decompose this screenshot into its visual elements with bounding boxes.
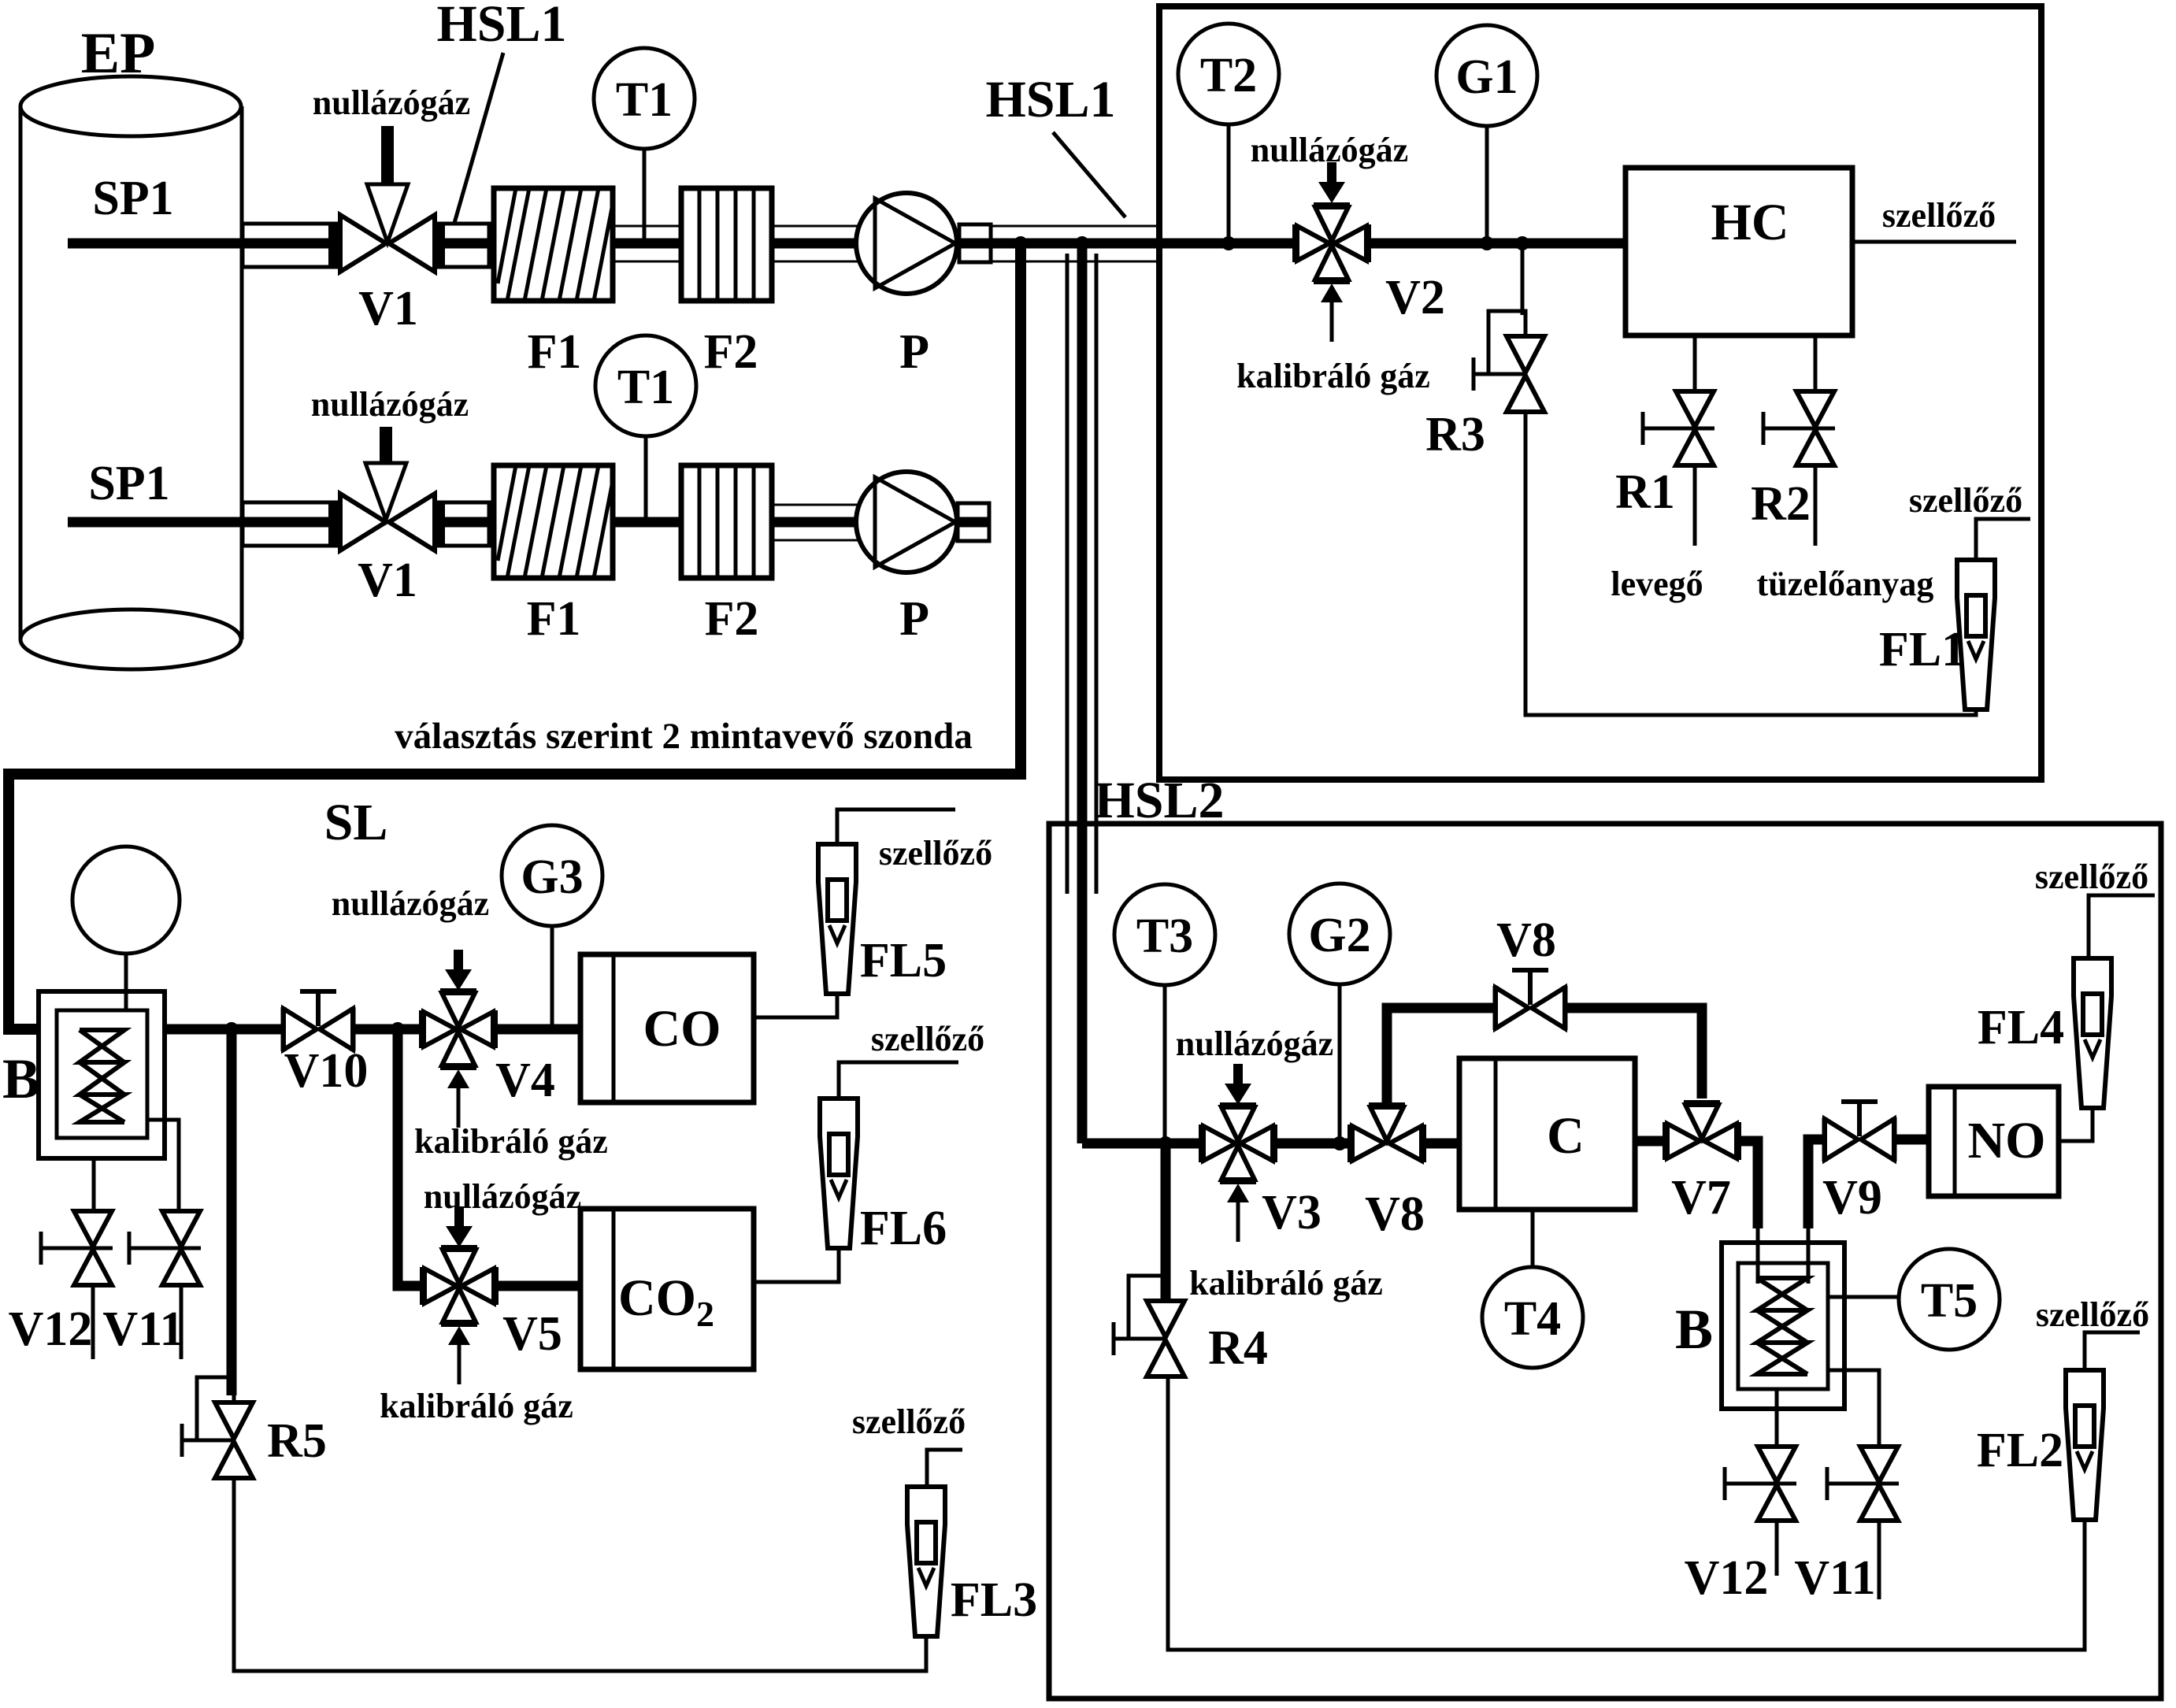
wire branch down to R5 [227, 1029, 237, 1395]
svg-text:szellőző: szellőző [2035, 858, 2148, 896]
valve V1 (row 2) [340, 494, 435, 550]
svg-text:kalibráló gáz: kalibráló gáz [380, 1387, 573, 1425]
nullázógáz arrow into V3 [1225, 1064, 1251, 1105]
svg-text:R5: R5 [267, 1414, 327, 1468]
wire V9 to B cooler [1808, 1139, 1825, 1228]
svg-text:P: P [899, 592, 929, 646]
wire FL2 vent elbow [2085, 1332, 2140, 1370]
svg-text:kalibráló gáz: kalibráló gáz [1236, 357, 1430, 395]
svg-text:nullázógáz: nullázógáz [1251, 131, 1408, 169]
kalibráló gáz arrow into V2 [1321, 283, 1343, 342]
svg-text:V3: V3 [1262, 1186, 1322, 1239]
kalibráló gáz arrow into V5 [448, 1326, 470, 1384]
svg-text:T4: T4 [1504, 1292, 1561, 1346]
wire HC vent line [1852, 240, 2016, 244]
node G2 junction [1333, 1136, 1347, 1150]
gauge G1 [1436, 25, 1537, 126]
wire B to V12 (SL) [92, 1158, 96, 1211]
svg-text:R4: R4 [1208, 1321, 1268, 1375]
wire V9 to NO [1894, 1135, 1929, 1145]
gauge T5 [1899, 1249, 2000, 1350]
svg-text:nullázógáz: nullázógáz [1176, 1024, 1333, 1063]
regulator R4 [1114, 1276, 1184, 1376]
valve R2 [1763, 391, 1835, 465]
analyzer box HC [1626, 168, 1852, 335]
filter F1 (row 1) [494, 188, 613, 301]
svg-text:B: B [1675, 1298, 1713, 1361]
svg-text:SL: SL [324, 794, 388, 851]
wire SL main line B outlet to V10 [165, 1024, 284, 1035]
svg-text:V7: V7 [1671, 1171, 1731, 1224]
gauge T4 [1482, 1267, 1583, 1368]
svg-text:tüzelőanyag: tüzelőanyag [1757, 565, 1934, 603]
flowmeter FL2 [2066, 1370, 2104, 1520]
pump P (row 2) [856, 472, 957, 572]
valve V3 (4-way) [1202, 1106, 1274, 1181]
svg-text:kalibráló gáz: kalibráló gáz [414, 1122, 608, 1161]
svg-text:FL2: FL2 [1977, 1424, 2063, 1477]
svg-text:SP1: SP1 [92, 172, 173, 225]
svg-text:szellőző: szellőző [879, 834, 992, 873]
svg-text:NO: NO [1968, 1112, 2046, 1169]
wire below V12 (HSL2) [1775, 1521, 1779, 1576]
wire bubble to B [124, 954, 128, 1010]
svg-text:V12: V12 [9, 1302, 93, 1356]
wire FL1 vent elbow [1976, 519, 2030, 560]
svg-text:V2: V2 [1385, 271, 1445, 324]
svg-text:V5: V5 [502, 1307, 562, 1361]
gauge G2 [1289, 884, 1390, 984]
wire CO2 outlet to FL6 [754, 1250, 839, 1282]
heated probe SP1 row2 [243, 502, 338, 546]
svg-text:F2: F2 [704, 325, 758, 379]
svg-text:nullázógáz: nullázógáz [332, 884, 489, 923]
node G1 junction [1480, 236, 1494, 250]
wire V10 to V4 [353, 1024, 422, 1035]
wire G3 drop [550, 926, 554, 1024]
wire HC bottom to R1 [1693, 335, 1697, 391]
heated probe stub after V1 row1 [436, 224, 489, 267]
wire R5 down and across to FL3 [234, 1478, 926, 1671]
pump P (row 1) [856, 193, 957, 294]
svg-text:FL6: FL6 [860, 1202, 947, 1255]
svg-text:T2: T2 [1200, 49, 1257, 102]
valve V8 (3-way at line) [1351, 1106, 1423, 1162]
svg-text:V12: V12 [1685, 1551, 1769, 1605]
svg-text:F1: F1 [527, 592, 581, 646]
leader line HSL1 left [454, 53, 503, 223]
heated probe stub after V1 row2 [436, 502, 489, 546]
svg-text:G3: G3 [521, 850, 583, 904]
regulator R5 [182, 1377, 253, 1478]
svg-text:szellőző: szellőző [1882, 196, 1996, 235]
wire V7 to B cooler [1738, 1141, 1758, 1228]
wire FL6 vent elbow [839, 1062, 958, 1099]
analyzer box CO2 [580, 1209, 754, 1369]
wire branch down to R3 [1522, 243, 1525, 336]
svg-text:R2: R2 [1751, 477, 1811, 531]
svg-text:F2: F2 [705, 592, 759, 646]
nullázógáz arrow into V5 [446, 1206, 473, 1247]
node: junction row1 to HSL2 heated line [1075, 236, 1089, 250]
svg-text:FL4: FL4 [1978, 1001, 2064, 1054]
svg-text:HSL1: HSL1 [985, 71, 1115, 128]
wire V5 to CO2 [494, 1281, 580, 1291]
wire HC bottom to R2 [1814, 335, 1818, 391]
valve V2 (4-way) [1296, 206, 1368, 281]
svg-text:V8: V8 [1496, 913, 1556, 967]
filter F2 (row 1) [681, 188, 772, 301]
nullázógáz arrow into V2 [1318, 162, 1345, 203]
wall lines heated line row1 F1-F2 [613, 226, 681, 261]
node R3 branch junction [1515, 236, 1529, 250]
analyzer box CO [580, 954, 754, 1102]
heated line stub after pump row1 [959, 224, 991, 262]
flowmeter FL6 [820, 1099, 858, 1248]
valve V9 [1825, 1117, 1894, 1162]
wire T2 drop [1227, 124, 1231, 243]
svg-text:HSL1: HSL1 [436, 0, 566, 53]
wire: row2 sample line [68, 517, 340, 528]
wire: row1 sample line from EP through probe to frame [68, 239, 340, 249]
valve V4 (4-way) [422, 991, 495, 1067]
wire B to V11 (SL) [147, 1120, 179, 1211]
valve V12 (SL) [41, 1211, 113, 1285]
wire R4 down and across to FL2 [1168, 1376, 2085, 1650]
valve V10 [284, 1007, 353, 1051]
svg-text:szellőző: szellőző [1909, 481, 2022, 520]
svg-text:FL1: FL1 [1879, 623, 1966, 676]
svg-text:választás szerint 2 mintavevő: választás szerint 2 mintavevő szonda [395, 716, 973, 757]
wire FL4 vent elbow [2089, 895, 2155, 958]
valve V7 (3-way) [1666, 1103, 1738, 1160]
svg-text:nullázógáz: nullázógáz [311, 385, 469, 424]
svg-text:B: B [2, 1047, 40, 1110]
wire T4 stem [1531, 1210, 1535, 1266]
kalibráló gáz arrow into V4 [447, 1069, 469, 1128]
valve V8 (bypass) [1496, 986, 1565, 1030]
node junction to R5 branch [224, 1022, 239, 1036]
svg-text:szellőző: szellőző [871, 1020, 984, 1058]
wire G2 drop [1338, 984, 1342, 1143]
node: junction row1 to SL branch [1014, 236, 1028, 250]
svg-text:R3: R3 [1425, 408, 1485, 461]
svg-text:SP1: SP1 [88, 457, 169, 510]
wire FL5 vent elbow [837, 810, 955, 844]
wire CO outlet to FL5 [754, 994, 837, 1017]
wire main line HSL2 row [1082, 1139, 1202, 1149]
svg-text:kalibráló gáz: kalibráló gáz [1189, 1264, 1383, 1302]
exhaust pipe EP cylinder [20, 76, 242, 669]
valve V11 (HSL2) [1827, 1447, 1899, 1521]
svg-text:EP: EP [81, 21, 156, 86]
wire R1 air supply stub [1693, 466, 1697, 546]
filter F2 (row 2) [681, 465, 772, 578]
wire FL3 vent elbow [927, 1450, 962, 1487]
wire R2 fuel supply stub [1814, 466, 1818, 546]
svg-text:V11: V11 [102, 1302, 183, 1356]
svg-text:P: P [899, 325, 929, 379]
wire: main line inside HSL1 to HC [1159, 239, 1296, 249]
valve R1 [1643, 391, 1714, 465]
wire T1 row2 to line [644, 436, 648, 522]
svg-text:G2: G2 [1308, 909, 1370, 962]
svg-text:HC: HC [1711, 194, 1789, 251]
node junction T3 / R4 [1158, 1136, 1173, 1150]
wire T3 drop [1163, 985, 1167, 1143]
svg-text:V1: V1 [358, 282, 418, 335]
svg-text:F1: F1 [528, 325, 582, 379]
svg-text:V11: V11 [1794, 1551, 1875, 1605]
gauge T1 (row 1) [594, 48, 695, 149]
wire B to V12 (HSL2) [1775, 1389, 1779, 1447]
moisture trap bubble on B [72, 847, 180, 954]
svg-text:T1: T1 [616, 73, 673, 127]
svg-text:T3: T3 [1136, 910, 1193, 963]
nullázógáz arrow into V4 [445, 950, 472, 991]
wire T1 row1 to line [643, 149, 647, 243]
wire V4 to CO [493, 1024, 580, 1035]
wire branch down to R4 [1161, 1143, 1171, 1302]
svg-text:V8: V8 [1365, 1187, 1425, 1241]
wall lines heated line row1 pump-frame [991, 226, 1159, 261]
svg-text:CO: CO [643, 1000, 721, 1058]
converter box C [1459, 1058, 1635, 1210]
svg-text:V10: V10 [284, 1044, 369, 1098]
flowmeter FL1 [1957, 560, 1995, 710]
wire V8 bypass riser and top run [1387, 1008, 1497, 1107]
kalibráló gáz arrow into V3 [1227, 1184, 1249, 1242]
svg-text:C: C [1547, 1107, 1585, 1165]
wire T5 to B [1828, 1295, 1899, 1299]
svg-text:G1: G1 [1455, 50, 1518, 104]
cooler B (SL) [39, 991, 165, 1158]
svg-text:nullázógáz: nullázógáz [313, 83, 470, 122]
svg-text:levegő: levegő [1611, 565, 1703, 603]
wall lines heated line row1 F2-pump [772, 226, 858, 261]
wire R3 down to vent loop [1525, 412, 1976, 715]
wire NO outlet to FL4 [2059, 1108, 2093, 1141]
valve V11 (SL) [129, 1211, 201, 1285]
svg-text:szellőző: szellőző [2036, 1295, 2149, 1334]
wire: thick branch down-left to SL section [9, 243, 1021, 1029]
svg-text:V1: V1 [358, 554, 417, 607]
gauge T1 (row 2) [595, 335, 696, 436]
gauge T3 [1114, 884, 1215, 985]
heated line stub after pump row2 [958, 503, 989, 541]
svg-text:R1: R1 [1615, 465, 1675, 519]
valve V12 (HSL2) [1725, 1447, 1796, 1521]
svg-text:szellőző: szellőző [852, 1402, 966, 1441]
wire G1 drop [1485, 126, 1489, 243]
gauge T2 [1178, 24, 1279, 124]
wire B to V11 (HSL2) [1828, 1370, 1879, 1447]
flowmeter FL5 [818, 844, 856, 994]
node junction to V5 branch [391, 1022, 405, 1036]
frame HSL2 box [1049, 824, 2161, 1699]
gauge G3 [502, 825, 602, 926]
nullázógáz arrow into V1 row1 [367, 126, 408, 243]
svg-text:FL5: FL5 [860, 934, 947, 987]
svg-text:HSL2: HSL2 [1094, 772, 1224, 829]
svg-text:T1: T1 [617, 361, 674, 414]
frame HSL1 box [1159, 6, 2041, 780]
svg-text:nullázógáz: nullázógáz [424, 1177, 581, 1216]
regulator R3 [1474, 311, 1544, 412]
flowmeter FL4 [2074, 958, 2111, 1108]
filter F1 (row 2) [494, 465, 613, 578]
wire branch down to V5 [398, 1029, 423, 1286]
wire below V11 (HSL2) [1878, 1521, 1881, 1599]
flowmeter FL3 [907, 1487, 945, 1636]
svg-text:FL3: FL3 [951, 1573, 1037, 1627]
nullázógáz arrow into V1 row2 [365, 427, 406, 520]
wire below V11 (SL) [180, 1285, 183, 1359]
node T2 junction [1221, 236, 1236, 250]
heated probe SP1 row1 (inside stack) [243, 224, 338, 267]
wall lines heated line row2 F2-pump [772, 505, 858, 540]
heated sample line HSL2 drop [1067, 243, 1096, 1143]
svg-text:V4: V4 [495, 1054, 555, 1107]
wire C to V7 [1635, 1136, 1666, 1147]
valve V5 (4-way) [423, 1248, 495, 1324]
cooler B (HSL2) [1722, 1243, 1844, 1409]
valve V1 (row 1) [340, 215, 435, 272]
wire below V12 (SL) [91, 1285, 95, 1359]
svg-text:V9: V9 [1822, 1171, 1882, 1224]
svg-text:T5: T5 [1921, 1274, 1978, 1328]
leader line HSL1 right [1053, 132, 1125, 217]
analyzer box NO [1929, 1087, 2059, 1196]
